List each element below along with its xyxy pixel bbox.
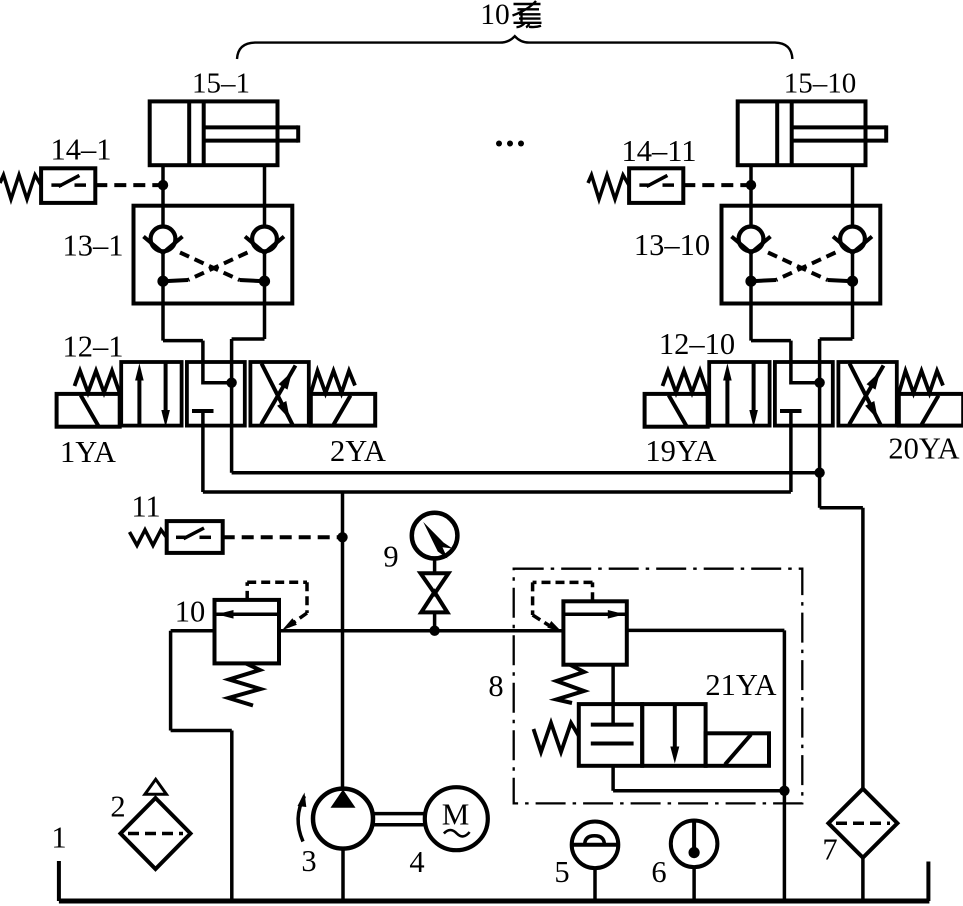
- svg-text:2YA: 2YA: [330, 434, 386, 468]
- svg-text:15–1: 15–1: [192, 68, 250, 100]
- svg-text:5: 5: [554, 855, 569, 889]
- svg-text:M: M: [442, 797, 470, 832]
- svg-text:15–10: 15–10: [784, 68, 857, 100]
- svg-text:3: 3: [301, 844, 316, 878]
- svg-text:7: 7: [822, 833, 837, 867]
- svg-text:12–10: 12–10: [659, 327, 735, 361]
- svg-text:13–10: 13–10: [634, 228, 710, 262]
- svg-text:8: 8: [488, 669, 503, 703]
- svg-text:1YA: 1YA: [60, 435, 116, 469]
- svg-text:14–1: 14–1: [51, 133, 112, 167]
- svg-text:20YA: 20YA: [888, 432, 959, 466]
- svg-text:21YA: 21YA: [705, 668, 776, 702]
- svg-text:14–11: 14–11: [621, 134, 696, 168]
- svg-text:12–1: 12–1: [63, 330, 124, 364]
- svg-text:6: 6: [651, 855, 666, 889]
- svg-text:9: 9: [383, 540, 398, 574]
- svg-text:1: 1: [51, 821, 66, 855]
- svg-text:11: 11: [131, 490, 160, 524]
- svg-text:19YA: 19YA: [645, 434, 716, 468]
- svg-text:2: 2: [110, 790, 125, 824]
- svg-text:10: 10: [175, 595, 206, 629]
- svg-text:13–1: 13–1: [63, 229, 124, 263]
- svg-text:10: 10: [480, 0, 510, 31]
- svg-text:4: 4: [409, 845, 424, 879]
